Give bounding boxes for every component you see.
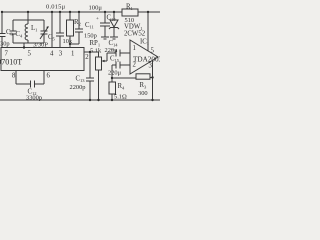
svg-text:7: 7 — [5, 51, 9, 58]
capacitor C4 — [10, 20, 24, 43]
wire ground bus — [0, 99, 160, 101]
svg-text:D7010T: D7010T — [0, 58, 22, 67]
wire rail to pin4 — [51, 12, 53, 48]
resistor R4 5.1ohm — [109, 78, 127, 101]
wire tank bottom bus — [13, 42, 44, 44]
svg-text:2: 2 — [133, 62, 137, 69]
capacitor C3 — [0, 12, 14, 48]
svg-text:1: 1 — [71, 51, 74, 58]
capacitor 0.015u — [46, 4, 66, 48]
svg-text:1: 1 — [133, 45, 136, 52]
wire top supply rail right segment — [138, 11, 160, 13]
svg-text:5.1Ω: 5.1Ω — [114, 94, 127, 101]
svg-text:4: 4 — [50, 51, 54, 58]
svg-text:100μ: 100μ — [89, 5, 103, 12]
capacitor C14 220u (pin1 input) — [105, 40, 131, 57]
svg-text:2CW52: 2CW52 — [124, 31, 146, 38]
junction dots — [1, 11, 154, 101]
potentiometer RP1 5.1k — [90, 40, 108, 100]
capacitor C12 3300p — [16, 71, 44, 102]
svg-text:3300p: 3300p — [26, 95, 42, 102]
svg-text:0.015μ: 0.015μ — [46, 4, 66, 11]
svg-text:8: 8 — [12, 73, 16, 80]
svg-text:5: 5 — [28, 51, 32, 58]
svg-text:TDA2003: TDA2003 — [133, 56, 160, 64]
svg-text:150p: 150p — [84, 33, 97, 40]
wire tank top bus — [13, 19, 44, 21]
svg-text:3: 3 — [149, 63, 153, 70]
capacitor C15 220u (pin2 feedback) — [108, 56, 130, 79]
svg-text:6: 6 — [47, 73, 51, 80]
resistor R2 10k — [63, 12, 81, 48]
zener diode VDW1 2CW52 — [109, 12, 146, 39]
inductor L1 — [25, 20, 37, 43]
svg-text:30p: 30p — [0, 41, 10, 48]
trimmer capacitor C5 3/30P — [33, 20, 56, 49]
svg-text:2200p: 2200p — [70, 84, 86, 91]
node tank top — [27, 12, 29, 20]
svg-text:220μ: 220μ — [108, 70, 122, 77]
wire pin2 output — [84, 51, 99, 53]
svg-text:5.1k: 5.1k — [90, 48, 102, 55]
wire top supply rail left segment — [1, 11, 122, 13]
wire feedback node — [112, 77, 136, 79]
svg-text:2: 2 — [85, 54, 89, 61]
capacitor C10 100u — [89, 5, 117, 40]
wire tank to pin5 — [23, 43, 25, 48]
resistor R3 300 — [136, 74, 153, 97]
resistor R1 510 — [122, 4, 138, 25]
svg-text:300: 300 — [138, 90, 148, 97]
svg-text:+: + — [96, 17, 99, 22]
op-amp IC1 TDA2003 — [130, 39, 163, 75]
svg-text:3: 3 — [59, 51, 63, 58]
wire rail to TDA pin5 — [147, 12, 149, 51]
capacitor C13 2200p — [70, 52, 95, 100]
IC box D7010T — [0, 48, 89, 80]
wire TDA pin3 to ground — [152, 60, 154, 100]
svg-text:510: 510 — [125, 17, 135, 24]
capacitor C11 150p — [70, 12, 97, 44]
